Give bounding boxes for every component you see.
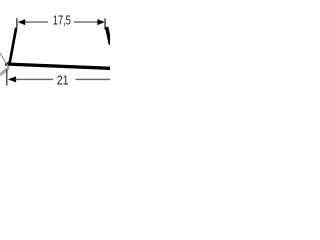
svg-text:21: 21 <box>57 73 69 88</box>
profile right bevel edge <box>107 27 111 45</box>
extension line left of top dimension <box>16 18 18 28</box>
gray oblique line B at bottom-left corner <box>0 68 9 75</box>
profile bottom edge <box>5 64 110 68</box>
extension line right of top dimension <box>104 18 106 29</box>
dimension line 17,5 right segment <box>74 21 104 23</box>
arrowhead left of 21 <box>8 76 16 82</box>
dimension line 21 right segment <box>75 78 110 80</box>
extension line left of bottom dimension <box>6 70 8 86</box>
svg-text:17,5: 17,5 <box>53 13 71 28</box>
arrowhead right of 17,5 <box>97 19 104 25</box>
profile left bevel edge <box>9 28 16 65</box>
dimension line 21 left segment <box>16 78 54 80</box>
arrowhead left of 17,5 <box>18 19 25 25</box>
dimension line 17,5 left segment <box>19 21 48 23</box>
gray oblique line A at bottom-left corner <box>0 53 9 68</box>
